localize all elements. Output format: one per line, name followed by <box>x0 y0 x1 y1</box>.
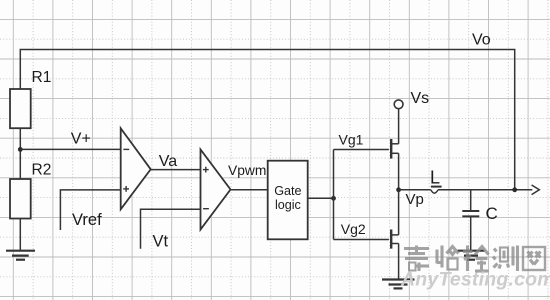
capacitor C lead from output wire <box>470 190 472 211</box>
comparator U2 <box>201 150 231 230</box>
node: driver rail junction dot <box>331 196 336 201</box>
inductor L <box>431 187 442 194</box>
svg-text:C: C <box>486 204 498 223</box>
terminal Vs supply circle <box>394 100 403 109</box>
svg-text:V+: V+ <box>71 130 91 147</box>
wire: V+ to error amp inverting input <box>20 148 120 150</box>
node Vp junction dot <box>396 187 401 192</box>
resistor R2 <box>10 179 31 219</box>
op-amp U1 plus sign <box>123 186 129 192</box>
wire: inductor to output node and arrow <box>438 189 532 191</box>
svg-text:AnyTesting.com: AnyTesting.com <box>400 269 550 291</box>
ground (under Q2) <box>382 280 415 289</box>
wire: Vp down to Q2 drain <box>398 190 400 235</box>
wire: Vg1 gate lead <box>334 149 389 151</box>
svg-text:Vo: Vo <box>472 32 491 49</box>
wire: Vpwm comparator output to gate logic <box>231 189 268 191</box>
svg-text:Va: Va <box>159 153 177 170</box>
node: output junction dot <box>512 187 517 192</box>
svg-text:Vg2: Vg2 <box>341 221 366 237</box>
wire: Q1 source down to node Vp <box>398 153 400 190</box>
wire: Va from U1 output to comparator <box>151 169 201 171</box>
svg-text:Vg1: Vg1 <box>339 131 364 147</box>
svg-text:Vref: Vref <box>72 211 102 229</box>
transistor Q1 (high-side MOSFET) <box>391 139 398 159</box>
comparator U2 minus sign <box>203 208 209 210</box>
wire: R1 bottom to R2 top through node <box>19 128 21 179</box>
wire: Q2 source to ground <box>398 244 400 280</box>
ground (under C) <box>458 251 485 260</box>
svg-text:Gate: Gate <box>274 184 301 198</box>
svg-text:Vt: Vt <box>153 232 169 250</box>
wire: gate logic output to driver rail <box>308 197 334 199</box>
wire: Vg2 gate lead <box>334 239 389 241</box>
wire: Vs to Q1 drain <box>398 109 400 144</box>
wire: Vp to inductor <box>399 189 431 191</box>
op-amp U1 error amplifier <box>121 128 151 209</box>
watermark (site logo, decorative) <box>404 246 545 272</box>
capacitor C <box>462 211 479 216</box>
op-amp U1 minus sign <box>123 148 129 150</box>
gate logic block U3 <box>268 161 308 240</box>
wire: capacitor to ground <box>470 216 472 250</box>
wire: Vt input bracket <box>141 209 201 249</box>
svg-text:L: L <box>430 167 440 187</box>
svg-text:R2: R2 <box>32 162 52 179</box>
svg-text:Vs: Vs <box>411 90 430 107</box>
svg-text:Vp: Vp <box>406 191 424 208</box>
output arrow head <box>532 185 540 195</box>
resistor R1 <box>10 89 31 128</box>
svg-text:Vpwm: Vpwm <box>228 163 266 178</box>
wire: R2 bottom to ground <box>19 219 21 251</box>
wire: driver rail vertical <box>333 150 335 240</box>
wire: Vref input bracket <box>60 190 120 230</box>
transistor Q2 (low-side MOSFET) <box>391 230 398 249</box>
wire: Vo feedback top rail <box>20 50 514 190</box>
svg-text:logic: logic <box>275 198 301 212</box>
comparator U2 plus sign <box>203 167 209 173</box>
ground (left, under R2) <box>6 251 35 260</box>
svg-text:R1: R1 <box>32 69 52 86</box>
node V+ junction dot <box>18 147 23 152</box>
